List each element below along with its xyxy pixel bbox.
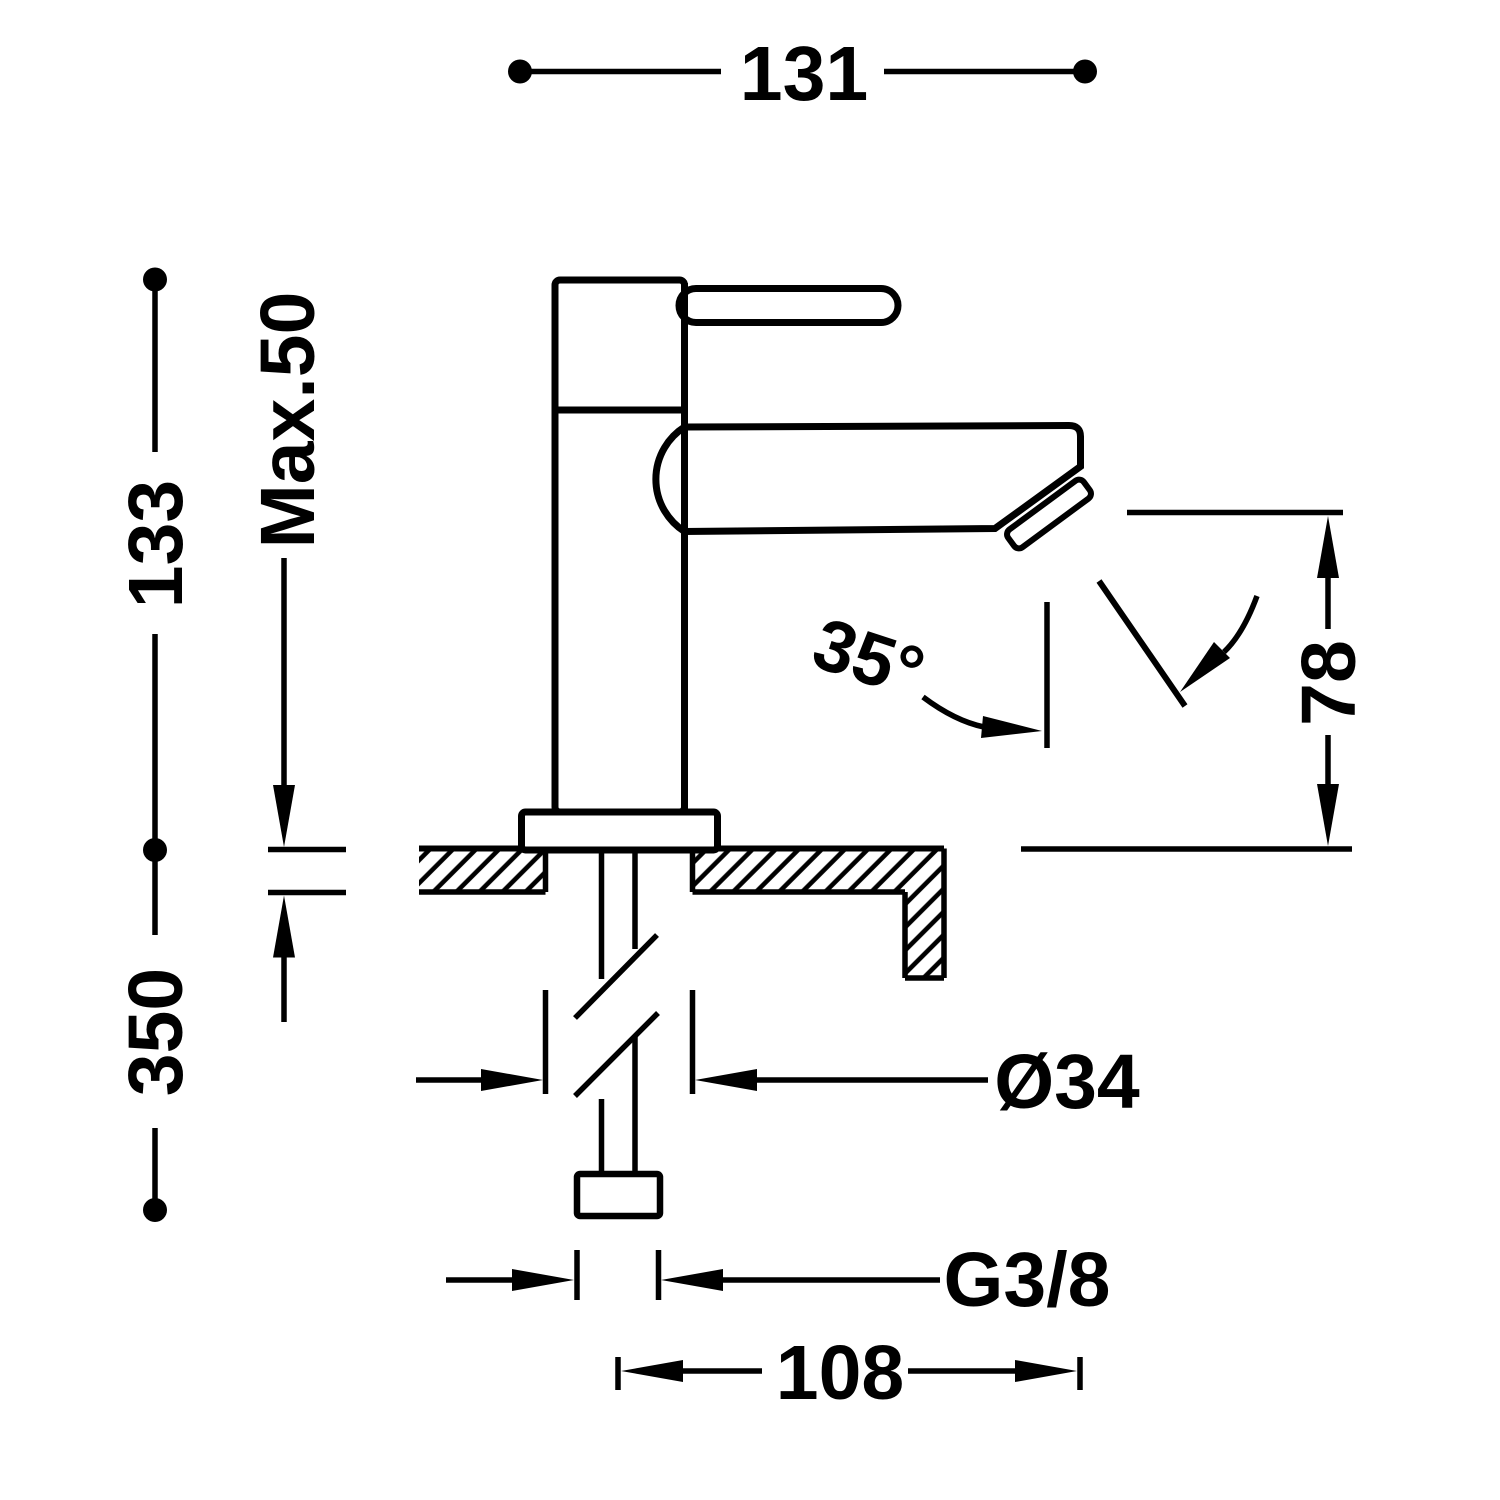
dim 131 label <box>740 31 868 117</box>
Max.50 arrowhead down <box>273 785 295 847</box>
shank right wall upper <box>632 851 638 949</box>
break line lower <box>575 1013 658 1096</box>
countertop hole left edge <box>543 849 549 893</box>
shank left wall lower <box>599 1099 605 1174</box>
dim 108 left tick <box>615 1357 621 1390</box>
svg-text:108: 108 <box>776 1330 904 1416</box>
dim 350 upper line <box>152 856 158 935</box>
spout <box>656 426 1081 532</box>
dim O34 right arrowhead <box>695 1069 757 1091</box>
break line upper <box>575 935 657 1018</box>
svg-text:133: 133 <box>113 480 199 608</box>
counter edge bottom line <box>905 975 944 981</box>
dim 133 lower line <box>152 634 158 844</box>
dim 108 left line <box>681 1368 762 1374</box>
dim 133 label <box>113 480 199 608</box>
shank right wall lower <box>632 1036 638 1174</box>
countertop thickness arrowhead up <box>273 896 295 958</box>
dim 78 upper shaft <box>1325 577 1331 629</box>
angle 35 upper arrowhead <box>1180 642 1230 692</box>
dim O34 left arrowhead <box>481 1069 543 1091</box>
svg-text:Ø34: Ø34 <box>994 1039 1140 1125</box>
dim O34 left line <box>416 1077 485 1083</box>
dim 131 left dot <box>508 60 532 84</box>
dim 350 bottom dot <box>143 1198 167 1222</box>
angle 35 label <box>804 603 934 714</box>
countertop thickness tick bottom <box>268 890 346 896</box>
dim O34 right line <box>755 1077 988 1083</box>
dim 350 lower line <box>152 1128 158 1204</box>
svg-text:350: 350 <box>113 968 199 1096</box>
counter edge inner vertical <box>902 892 908 978</box>
dim G3/8 label <box>944 1237 1111 1323</box>
handle lever <box>679 289 898 323</box>
svg-text:78: 78 <box>1286 640 1372 726</box>
supply nut <box>577 1174 660 1216</box>
angle 35 lower curved arrow tail <box>923 697 984 727</box>
angle 35 lower arrowhead <box>981 716 1042 738</box>
dim 78 bottom arrowhead <box>1317 784 1339 846</box>
dim 133/350 shared dot <box>143 838 167 862</box>
dim 108 right tick <box>1077 1357 1083 1390</box>
shank left wall upper <box>599 851 605 979</box>
countertop top surface line <box>419 846 944 852</box>
Max.50 arrow shaft down <box>281 558 287 791</box>
countertop right block bottom line <box>693 889 906 895</box>
dim G3/8 left tick <box>574 1250 580 1300</box>
angle 35 upper curved arrow tail <box>1224 596 1257 652</box>
label Max.50 <box>245 292 331 549</box>
countertop hatch right block <box>693 849 945 979</box>
body cap joint line <box>555 407 685 414</box>
dim 78 lower shaft <box>1325 735 1331 786</box>
counter edge outer vertical <box>941 849 947 979</box>
dim 78 label <box>1286 640 1372 726</box>
svg-text:G3/8: G3/8 <box>944 1237 1111 1323</box>
dim O34 label <box>994 1039 1140 1125</box>
countertop thickness arrow shaft up <box>281 955 287 1022</box>
countertop left block bottom line <box>419 889 546 895</box>
dim 78 top arrowhead <box>1317 516 1339 578</box>
svg-text:131: 131 <box>740 31 868 117</box>
dim 108 left arrowhead <box>621 1360 683 1382</box>
svg-text:Max.50: Max.50 <box>245 292 331 549</box>
aerator outlet <box>1005 477 1094 550</box>
dim 108 right arrowhead <box>1015 1360 1077 1382</box>
dim 131 right line <box>884 69 1079 75</box>
countertop hole right edge <box>690 849 696 893</box>
dim G3/8 right tick <box>656 1250 662 1300</box>
dim 131 left line <box>526 69 721 75</box>
dim G3/8 right arrowhead <box>661 1269 723 1291</box>
dim 133 upper line <box>152 286 158 452</box>
dim 350 label <box>113 968 199 1096</box>
body right edge line <box>681 283 688 810</box>
angle 35 reference tick <box>1044 602 1050 748</box>
dim 131 right dot <box>1073 60 1097 84</box>
countertop hatch left block <box>419 849 546 893</box>
dim 78 bottom reference line <box>1021 846 1352 852</box>
base plate <box>522 812 718 850</box>
dim G3/8 left line <box>446 1277 515 1283</box>
dim 108 label <box>776 1330 904 1416</box>
dim G3/8 right line <box>721 1277 940 1283</box>
dim 108 right line <box>908 1368 1017 1374</box>
dim 78 top reference line <box>1127 510 1343 516</box>
angle 35 slanted line <box>1099 581 1185 706</box>
dim O34 left tick <box>543 990 549 1094</box>
dim 133 top dot <box>143 268 167 292</box>
dim O34 right tick <box>690 990 696 1094</box>
faucet body <box>555 280 685 812</box>
countertop thickness tick top <box>268 847 346 853</box>
dim G3/8 left arrowhead <box>512 1269 574 1291</box>
